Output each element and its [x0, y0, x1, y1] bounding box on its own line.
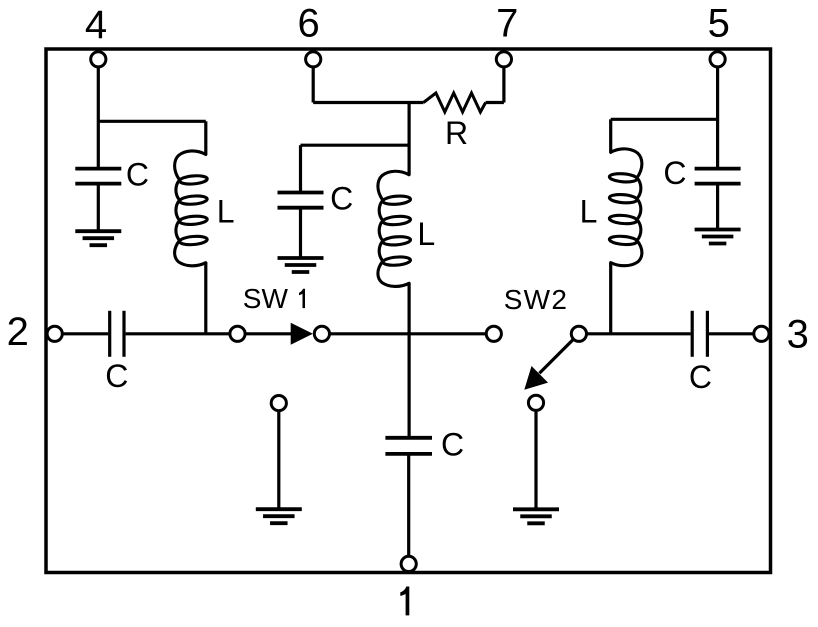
svg-text:3: 3: [787, 313, 809, 357]
svg-text:L: L: [417, 216, 435, 252]
svg-text:7: 7: [496, 2, 518, 46]
svg-text:4: 4: [85, 3, 107, 47]
svg-text:C: C: [663, 155, 686, 191]
svg-text:SW2: SW2: [504, 284, 569, 315]
svg-text:L: L: [580, 193, 598, 229]
svg-text:L: L: [217, 193, 235, 229]
svg-text:C: C: [330, 180, 353, 216]
svg-text:C: C: [441, 427, 464, 463]
svg-text:SW: SW: [243, 283, 289, 314]
svg-text:C: C: [689, 359, 712, 395]
svg-text:C: C: [126, 156, 149, 192]
svg-text:6: 6: [297, 2, 319, 46]
svg-text:C: C: [105, 358, 128, 394]
svg-text:5: 5: [708, 2, 730, 46]
svg-text:R: R: [445, 115, 468, 151]
svg-text:2: 2: [7, 310, 29, 354]
